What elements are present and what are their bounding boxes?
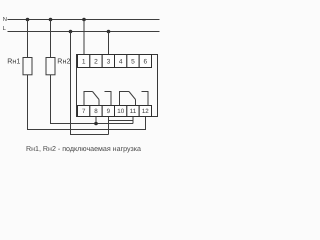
terminal 2 xyxy=(90,55,102,68)
resistor Rн1 xyxy=(23,58,32,75)
svg-text:Rн1, Rн2 - подключаемая нагруз: Rн1, Rн2 - подключаемая нагрузка xyxy=(26,145,141,153)
node junction L-return xyxy=(69,30,73,34)
relay contact K1 terminal 9 bracket xyxy=(105,92,112,106)
wire Rн1 to terminal 12 xyxy=(28,75,146,130)
svg-text:N: N xyxy=(3,17,7,23)
wire L bus xyxy=(8,31,160,33)
terminal 11 xyxy=(127,106,139,117)
relay contact K1 terminal 8 stub xyxy=(98,100,100,106)
terminal 10 xyxy=(115,106,127,117)
svg-text:10: 10 xyxy=(117,108,124,115)
node junction N-Rн1 xyxy=(26,18,30,22)
node junction N-terminal1 xyxy=(82,18,86,22)
relay contact K2 blade xyxy=(129,92,136,100)
svg-text:3: 3 xyxy=(107,58,111,65)
relay contact K1 blade xyxy=(93,92,100,100)
wire L down left side to return bus xyxy=(71,32,109,135)
wire N bus xyxy=(8,19,160,21)
wire terminal 11 stub xyxy=(132,117,134,124)
svg-text:6: 6 xyxy=(143,58,147,65)
relay contact K1 terminal 7 arm xyxy=(84,92,93,106)
terminal 5 xyxy=(127,55,139,68)
terminal 4 xyxy=(115,55,127,68)
terminal 9 xyxy=(102,106,114,117)
terminal 1 xyxy=(78,55,90,68)
node junction L-terminal3 xyxy=(107,30,111,34)
terminal 6 xyxy=(139,55,151,68)
node junction under terminal 8 xyxy=(94,122,98,126)
node junction N-Rн2 xyxy=(49,18,53,22)
wire L to terminal 3 xyxy=(108,32,110,55)
svg-text:5: 5 xyxy=(131,58,135,65)
svg-text:7: 7 xyxy=(82,108,86,115)
wire Rн2 to bottom net xyxy=(51,75,134,124)
relay contact K2 terminal 12 bracket xyxy=(142,92,149,106)
terminal 12 xyxy=(139,106,151,117)
terminal 3 xyxy=(102,55,114,68)
svg-text:9: 9 xyxy=(107,108,111,115)
svg-text:8: 8 xyxy=(94,108,98,115)
svg-text:2: 2 xyxy=(94,58,98,65)
terminal 7 xyxy=(78,106,90,117)
relay contact K2 terminal 10 arm xyxy=(120,92,130,106)
svg-text:1: 1 xyxy=(82,58,86,65)
relay contact K2 terminal 11 stub xyxy=(135,100,137,106)
svg-text:11: 11 xyxy=(130,108,137,115)
terminal 8 xyxy=(90,106,102,117)
svg-text:Rн1: Rн1 xyxy=(7,57,20,66)
wire N to Rн1 xyxy=(27,20,29,58)
svg-text:4: 4 xyxy=(119,58,123,65)
device U1 outline xyxy=(77,55,158,117)
wire N to terminal 1 xyxy=(83,20,85,55)
svg-text:Rн2: Rн2 xyxy=(57,57,70,66)
wire terminal 8 stub xyxy=(95,117,97,124)
svg-text:12: 12 xyxy=(142,108,149,115)
wire N to Rн2 xyxy=(50,20,52,58)
wire terminal 9 to terminal 11 link xyxy=(109,120,134,122)
wire terminal 9 down to L return xyxy=(108,117,110,135)
resistor Rн2 xyxy=(46,58,55,75)
